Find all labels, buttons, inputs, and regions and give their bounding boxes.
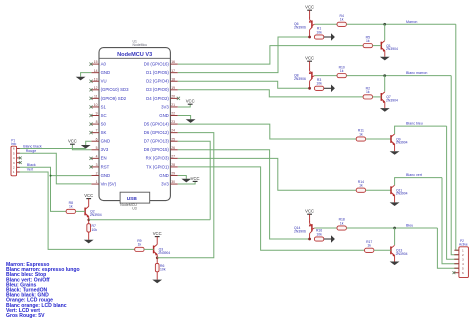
svg-text:VCC: VCC xyxy=(153,231,162,236)
svg-text:1k: 1k xyxy=(359,132,363,136)
svg-text:2N3904: 2N3904 xyxy=(158,251,170,255)
svg-text:18: 18 xyxy=(171,77,175,81)
svg-text:20: 20 xyxy=(171,94,175,98)
svg-text:1k: 1k xyxy=(340,18,344,22)
svg-text:2: 2 xyxy=(96,172,98,176)
svg-text:1k: 1k xyxy=(138,243,142,247)
svg-text:GND: GND xyxy=(101,70,111,75)
svg-text:11: 11 xyxy=(94,94,98,98)
svg-text:Gros Rouge: 5V: Gros Rouge: 5V xyxy=(6,313,45,319)
svg-text:Marron: Marron xyxy=(406,20,417,24)
svg-text:Active: Active xyxy=(459,243,468,247)
svg-text:1k: 1k xyxy=(367,244,371,248)
svg-text:10k: 10k xyxy=(316,82,322,86)
svg-text:TX (GPIO1): TX (GPIO1) xyxy=(146,164,169,169)
svg-text:4: 4 xyxy=(462,262,464,266)
svg-text:10k: 10k xyxy=(92,228,98,232)
svg-text:6: 6 xyxy=(462,271,464,275)
svg-text:RX (GPIO3): RX (GPIO3) xyxy=(146,156,170,161)
svg-text:1: 1 xyxy=(96,180,98,184)
svg-text:D8 (GPIO15): D8 (GPIO15) xyxy=(144,147,170,152)
svg-text:13: 13 xyxy=(94,77,98,81)
svg-text:9: 9 xyxy=(96,112,98,116)
svg-text:6: 6 xyxy=(96,137,98,141)
svg-text:D5 (GPIO14): D5 (GPIO14) xyxy=(144,121,170,126)
svg-text:VCC: VCC xyxy=(305,56,314,61)
svg-text:5: 5 xyxy=(462,266,464,270)
svg-text:29: 29 xyxy=(171,172,175,176)
svg-text:7: 7 xyxy=(96,129,98,133)
svg-text:S1: S1 xyxy=(101,104,107,109)
svg-text:1k: 1k xyxy=(366,90,370,94)
svg-text:NodeMCU V3: NodeMCU V3 xyxy=(117,52,152,58)
svg-text:3V3: 3V3 xyxy=(161,104,169,109)
svg-text:2N3904: 2N3904 xyxy=(386,98,398,102)
svg-text:2N3906: 2N3906 xyxy=(294,229,306,233)
svg-text:GND: GND xyxy=(159,113,169,118)
svg-text:SC: SC xyxy=(101,113,107,118)
svg-text:S0: S0 xyxy=(101,121,107,126)
svg-text:10k: 10k xyxy=(160,268,166,272)
svg-text:D3 (GPIO0): D3 (GPIO0) xyxy=(146,87,169,92)
svg-text:SK: SK xyxy=(101,130,107,135)
svg-text:14: 14 xyxy=(94,69,98,73)
svg-text:1k: 1k xyxy=(359,184,363,188)
svg-text:2N3904: 2N3904 xyxy=(396,192,408,196)
svg-text:23: 23 xyxy=(171,120,175,124)
svg-text:VU: VU xyxy=(101,79,107,84)
svg-text:5: 5 xyxy=(96,146,98,150)
svg-text:VCC: VCC xyxy=(305,5,314,10)
svg-text:D6 (GPIO12): D6 (GPIO12) xyxy=(144,130,170,135)
svg-text:Rouge: Rouge xyxy=(26,149,37,153)
svg-text:D0 (GPIO16): D0 (GPIO16) xyxy=(144,62,170,67)
svg-text:VCC: VCC xyxy=(191,176,200,181)
svg-text:24: 24 xyxy=(171,129,175,133)
svg-text:3: 3 xyxy=(96,163,98,167)
svg-text:2N3904: 2N3904 xyxy=(386,47,398,51)
svg-text:VCC: VCC xyxy=(84,193,93,198)
svg-text:USB: USB xyxy=(127,196,138,202)
svg-text:2N3904: 2N3904 xyxy=(90,213,102,217)
svg-text:1: 1 xyxy=(13,170,15,174)
svg-text:GND: GND xyxy=(101,173,111,178)
svg-text:Blanc black: Blanc black xyxy=(23,144,42,148)
svg-text:26: 26 xyxy=(171,146,175,150)
svg-text:15: 15 xyxy=(94,60,98,64)
svg-text:4: 4 xyxy=(96,154,98,158)
svg-text:D7 (GPIO13): D7 (GPIO13) xyxy=(144,139,170,144)
svg-text:D4 (GPIO2): D4 (GPIO2) xyxy=(146,96,169,101)
svg-text:5: 5 xyxy=(13,151,15,155)
svg-text:VCC: VCC xyxy=(186,99,195,104)
svg-text:Bleu: Bleu xyxy=(406,224,413,228)
svg-text:16: 16 xyxy=(171,60,175,64)
svg-text:Vin (5V): Vin (5V) xyxy=(101,181,117,186)
svg-text:Blanc bleu: Blanc bleu xyxy=(406,122,423,126)
svg-text:1: 1 xyxy=(462,248,464,252)
svg-text:2: 2 xyxy=(13,166,15,170)
svg-text:17: 17 xyxy=(171,69,175,73)
svg-text:19: 19 xyxy=(171,86,175,90)
svg-text:NodeMcu: NodeMcu xyxy=(133,43,148,47)
svg-text:4: 4 xyxy=(13,156,15,160)
svg-text:12: 12 xyxy=(94,86,98,90)
svg-text:30: 30 xyxy=(171,180,175,184)
svg-text:D2 (GPIO4): D2 (GPIO4) xyxy=(146,79,169,84)
svg-text:Blanc marron: Blanc marron xyxy=(406,71,427,75)
svg-text:6: 6 xyxy=(13,147,15,151)
svg-text:1k: 1k xyxy=(340,221,344,225)
svg-text:2: 2 xyxy=(462,253,464,257)
svg-text:VCC: VCC xyxy=(305,209,314,214)
svg-text:2N3906: 2N3906 xyxy=(294,26,306,30)
svg-text:(GPIO10) SD3: (GPIO10) SD3 xyxy=(101,87,130,92)
svg-text:28: 28 xyxy=(171,163,175,167)
svg-text:2N3906: 2N3906 xyxy=(294,77,306,81)
svg-text:3V3: 3V3 xyxy=(101,147,109,152)
svg-text:22: 22 xyxy=(171,112,175,116)
svg-text:3: 3 xyxy=(13,161,15,165)
svg-text:Black: Black xyxy=(27,163,36,167)
svg-text:GND: GND xyxy=(159,173,169,178)
svg-text:10: 10 xyxy=(94,103,98,107)
svg-text:A0: A0 xyxy=(101,62,107,67)
svg-text:(GPIO9) SD2: (GPIO9) SD2 xyxy=(101,96,127,101)
svg-text:25: 25 xyxy=(171,137,175,141)
svg-text:D1 (GPIO5): D1 (GPIO5) xyxy=(146,70,169,75)
svg-text:8: 8 xyxy=(96,120,98,124)
svg-text:27: 27 xyxy=(171,154,175,158)
svg-text:1k: 1k xyxy=(69,205,73,209)
svg-text:21: 21 xyxy=(171,103,175,107)
svg-text:U3: U3 xyxy=(132,207,137,211)
svg-text:GND: GND xyxy=(101,139,111,144)
svg-text:Vert: Vert xyxy=(27,168,33,172)
svg-text:VCC: VCC xyxy=(68,139,77,144)
svg-text:3V3: 3V3 xyxy=(161,181,169,186)
svg-text:RST: RST xyxy=(101,164,110,169)
svg-text:1k: 1k xyxy=(340,69,344,73)
svg-text:1k: 1k xyxy=(366,39,370,43)
svg-text:EN: EN xyxy=(101,156,107,161)
svg-text:3: 3 xyxy=(462,257,464,261)
svg-text:Blanc vert: Blanc vert xyxy=(406,173,422,177)
svg-text:2N3904: 2N3904 xyxy=(396,141,408,145)
svg-text:2N3904: 2N3904 xyxy=(396,252,408,256)
svg-text:Info: Info xyxy=(11,142,17,146)
svg-text:10k: 10k xyxy=(316,232,322,236)
svg-text:10k: 10k xyxy=(316,30,322,34)
